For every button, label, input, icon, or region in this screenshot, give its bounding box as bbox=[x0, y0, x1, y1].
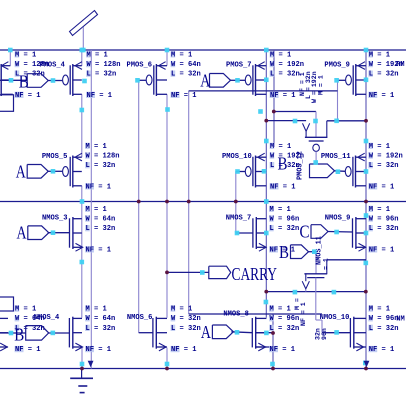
svg-text:W = 128n: W = 128n bbox=[87, 61, 121, 69]
svg-text:L = 32n: L = 32n bbox=[369, 325, 399, 333]
svg-text:NF = 1: NF = 1 bbox=[15, 92, 41, 100]
svg-text:L = 32n: L = 32n bbox=[86, 225, 116, 233]
svg-text:W = 32n: W = 32n bbox=[171, 315, 201, 323]
svg-text:NF = 1: NF = 1 bbox=[270, 183, 296, 191]
svg-text:NMOS_6: NMOS_6 bbox=[127, 314, 153, 322]
svg-text:B: B bbox=[279, 242, 289, 262]
svg-text:PM: PM bbox=[396, 61, 405, 69]
svg-text:NF = 1: NF = 1 bbox=[270, 346, 296, 354]
svg-text:L = 32n: L = 32n bbox=[369, 162, 399, 170]
svg-text:M = 1: M = 1 bbox=[171, 51, 192, 59]
svg-text:NF = 1: NF = 1 bbox=[369, 92, 395, 100]
svg-text:M = 1: M = 1 bbox=[87, 51, 108, 59]
svg-text:NF = 1: NF = 1 bbox=[15, 346, 41, 354]
svg-text:NF = 1: NF = 1 bbox=[369, 246, 395, 254]
svg-text:L = 32n: L = 32n bbox=[270, 71, 300, 79]
svg-text:L = 32n: L = 32n bbox=[369, 225, 399, 233]
svg-text:PMOS_6: PMOS_6 bbox=[127, 62, 153, 70]
svg-text:NF = 1: NF = 1 bbox=[171, 346, 197, 354]
svg-text:L = 32n: L = 32n bbox=[87, 71, 117, 79]
svg-text:W = 192n: W = 192n bbox=[369, 153, 403, 161]
svg-text:PMOS_7: PMOS_7 bbox=[226, 62, 252, 70]
svg-text:W = 128n: W = 128n bbox=[86, 153, 120, 161]
svg-text:PMOS_11: PMOS_11 bbox=[321, 153, 351, 161]
svg-text:B: B bbox=[14, 325, 24, 345]
svg-text:M = 1: M = 1 bbox=[369, 206, 390, 214]
svg-text:L = 32n: L = 32n bbox=[86, 325, 116, 333]
svg-text:NM: NM bbox=[396, 315, 405, 323]
svg-text:M = 1: M = 1 bbox=[15, 306, 36, 314]
svg-text:NMOS_8: NMOS_8 bbox=[223, 311, 249, 319]
svg-text:CARRY: CARRY bbox=[232, 264, 278, 284]
svg-text:W = 96n: W = 96n bbox=[270, 315, 300, 323]
svg-text:NMOS_10: NMOS_10 bbox=[320, 314, 350, 322]
svg-text:A: A bbox=[17, 223, 27, 243]
svg-text:M = 1: M = 1 bbox=[270, 206, 291, 214]
svg-text:W = 96n: W = 96n bbox=[369, 216, 399, 224]
svg-text:L = 32n: L = 32n bbox=[86, 162, 116, 170]
svg-text:PMOS_9: PMOS_9 bbox=[324, 62, 350, 70]
svg-text:W = 96n: W = 96n bbox=[369, 315, 399, 323]
svg-text:NF = 1: NF = 1 bbox=[300, 302, 307, 326]
svg-text:M =: M = bbox=[294, 298, 301, 310]
svg-text:NF = 1: NF = 1 bbox=[86, 246, 112, 254]
svg-text:= 1: = 1 bbox=[323, 258, 330, 270]
svg-text:C: C bbox=[300, 222, 310, 242]
svg-text:PMOS_5: PMOS_5 bbox=[42, 153, 68, 161]
svg-text:M = 1: M = 1 bbox=[15, 51, 36, 59]
svg-text:NF = 1: NF = 1 bbox=[86, 183, 112, 191]
svg-text:L = 32n: L = 32n bbox=[270, 225, 300, 233]
svg-text:M = 1: M = 1 bbox=[317, 75, 324, 95]
svg-text:L = 32n: L = 32n bbox=[369, 71, 399, 79]
svg-text:NF = 1: NF = 1 bbox=[270, 92, 296, 100]
svg-text:NMOS_4: NMOS_4 bbox=[34, 314, 60, 322]
svg-text:NMOS_9: NMOS_9 bbox=[325, 215, 351, 223]
svg-text:NF = 1: NF = 1 bbox=[171, 92, 197, 100]
svg-text:M = 1: M = 1 bbox=[270, 306, 291, 314]
svg-text:L = 32n: L = 32n bbox=[171, 71, 201, 79]
svg-text:A: A bbox=[16, 162, 26, 182]
svg-text:M = 1: M = 1 bbox=[86, 206, 107, 214]
svg-text:PMOS_10: PMOS_10 bbox=[222, 153, 252, 161]
svg-text:M = 1: M = 1 bbox=[369, 143, 390, 151]
svg-text:W = 64n: W = 64n bbox=[171, 61, 201, 69]
svg-text:B: B bbox=[278, 154, 288, 174]
svg-text:M = 1: M = 1 bbox=[86, 306, 107, 314]
svg-text:PMOS_4: PMOS_4 bbox=[39, 62, 65, 70]
svg-text:NF = 1: NF = 1 bbox=[86, 346, 112, 354]
svg-text:W = 64n: W = 64n bbox=[86, 216, 116, 224]
svg-text:L = 32n: L = 32n bbox=[171, 325, 201, 333]
svg-text:B: B bbox=[19, 72, 29, 92]
svg-text:NF = 1: NF = 1 bbox=[369, 346, 395, 354]
svg-text:NMOS_7: NMOS_7 bbox=[226, 215, 252, 223]
svg-text:M = 1: M = 1 bbox=[270, 51, 291, 59]
svg-text:M = 1: M = 1 bbox=[369, 306, 390, 314]
svg-text:NMOS_3: NMOS_3 bbox=[42, 215, 68, 223]
svg-text:M = 1: M = 1 bbox=[171, 306, 192, 314]
svg-text:A: A bbox=[200, 71, 210, 91]
svg-text:NF = 1: NF = 1 bbox=[369, 183, 395, 191]
svg-text:M = 1: M = 1 bbox=[270, 143, 291, 151]
svg-text:NF = 1: NF = 1 bbox=[87, 92, 113, 100]
svg-text:W = 64n: W = 64n bbox=[86, 315, 116, 323]
svg-text:96n: 96n bbox=[321, 328, 328, 340]
svg-text:M = 1: M = 1 bbox=[369, 51, 390, 59]
svg-text:M = 1: M = 1 bbox=[86, 143, 107, 151]
svg-text:W = 192n: W = 192n bbox=[270, 61, 304, 69]
svg-text:W = 96n: W = 96n bbox=[270, 216, 300, 224]
svg-text:A: A bbox=[201, 322, 211, 342]
